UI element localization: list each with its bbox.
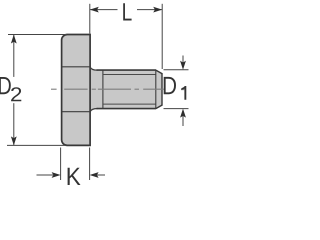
shaft end face: [161, 73, 163, 106]
K arrow right: [90, 172, 99, 178]
K dimension tail right: [97, 174, 105, 176]
shaft body fill: [90, 67, 162, 112]
D2 arrow up: [11, 35, 17, 44]
shaft bottom outline: [97, 108, 157, 110]
K arrow left: [52, 172, 61, 178]
top fillet head-to-shaft: [90, 67, 97, 70]
K extension line left: [60, 148, 62, 181]
chamfer bottom slant: [156, 105, 162, 109]
bottom fillet head-to-shaft: [90, 109, 97, 112]
K extension line right: [89, 148, 91, 181]
D1 extension line top: [164, 69, 189, 71]
thread minor line bottom: [103, 103, 156, 105]
L extension line right: [161, 4, 163, 69]
K dimension tail left: [37, 174, 54, 176]
head (knurled head side view): [62, 35, 91, 146]
D1 arrow top tail: [182, 56, 184, 63]
head upper face line: [62, 66, 90, 68]
label D1: [164, 77, 176, 94]
thread start line: [102, 70, 104, 109]
L dimension line right segment: [137, 9, 162, 11]
D1 arrow bottom tail: [182, 116, 184, 126]
thread minor line top: [103, 74, 156, 76]
D1 arrow top: [180, 61, 186, 70]
D2 extension line bottom: [7, 144, 67, 146]
D2 dimension line lower segment: [13, 103, 15, 145]
L extension line left: [89, 4, 91, 34]
D2 arrow down: [11, 136, 17, 145]
head lower face line: [62, 111, 90, 113]
chamfer start line: [155, 70, 157, 109]
label L: [123, 3, 131, 20]
D2 extension line top: [8, 34, 67, 36]
label K: [68, 168, 81, 185]
shaft top outline: [97, 69, 157, 71]
D1 arrow bottom: [180, 109, 186, 118]
D2 dimension line upper segment: [13, 35, 15, 77]
chamfer top slant: [156, 70, 162, 74]
D1 extension line bottom: [164, 108, 189, 110]
L dimension line left segment: [90, 9, 117, 11]
L arrow right: [153, 7, 162, 13]
centerline: [51, 88, 184, 90]
L arrow left: [90, 7, 99, 13]
label D2: [0, 77, 11, 94]
